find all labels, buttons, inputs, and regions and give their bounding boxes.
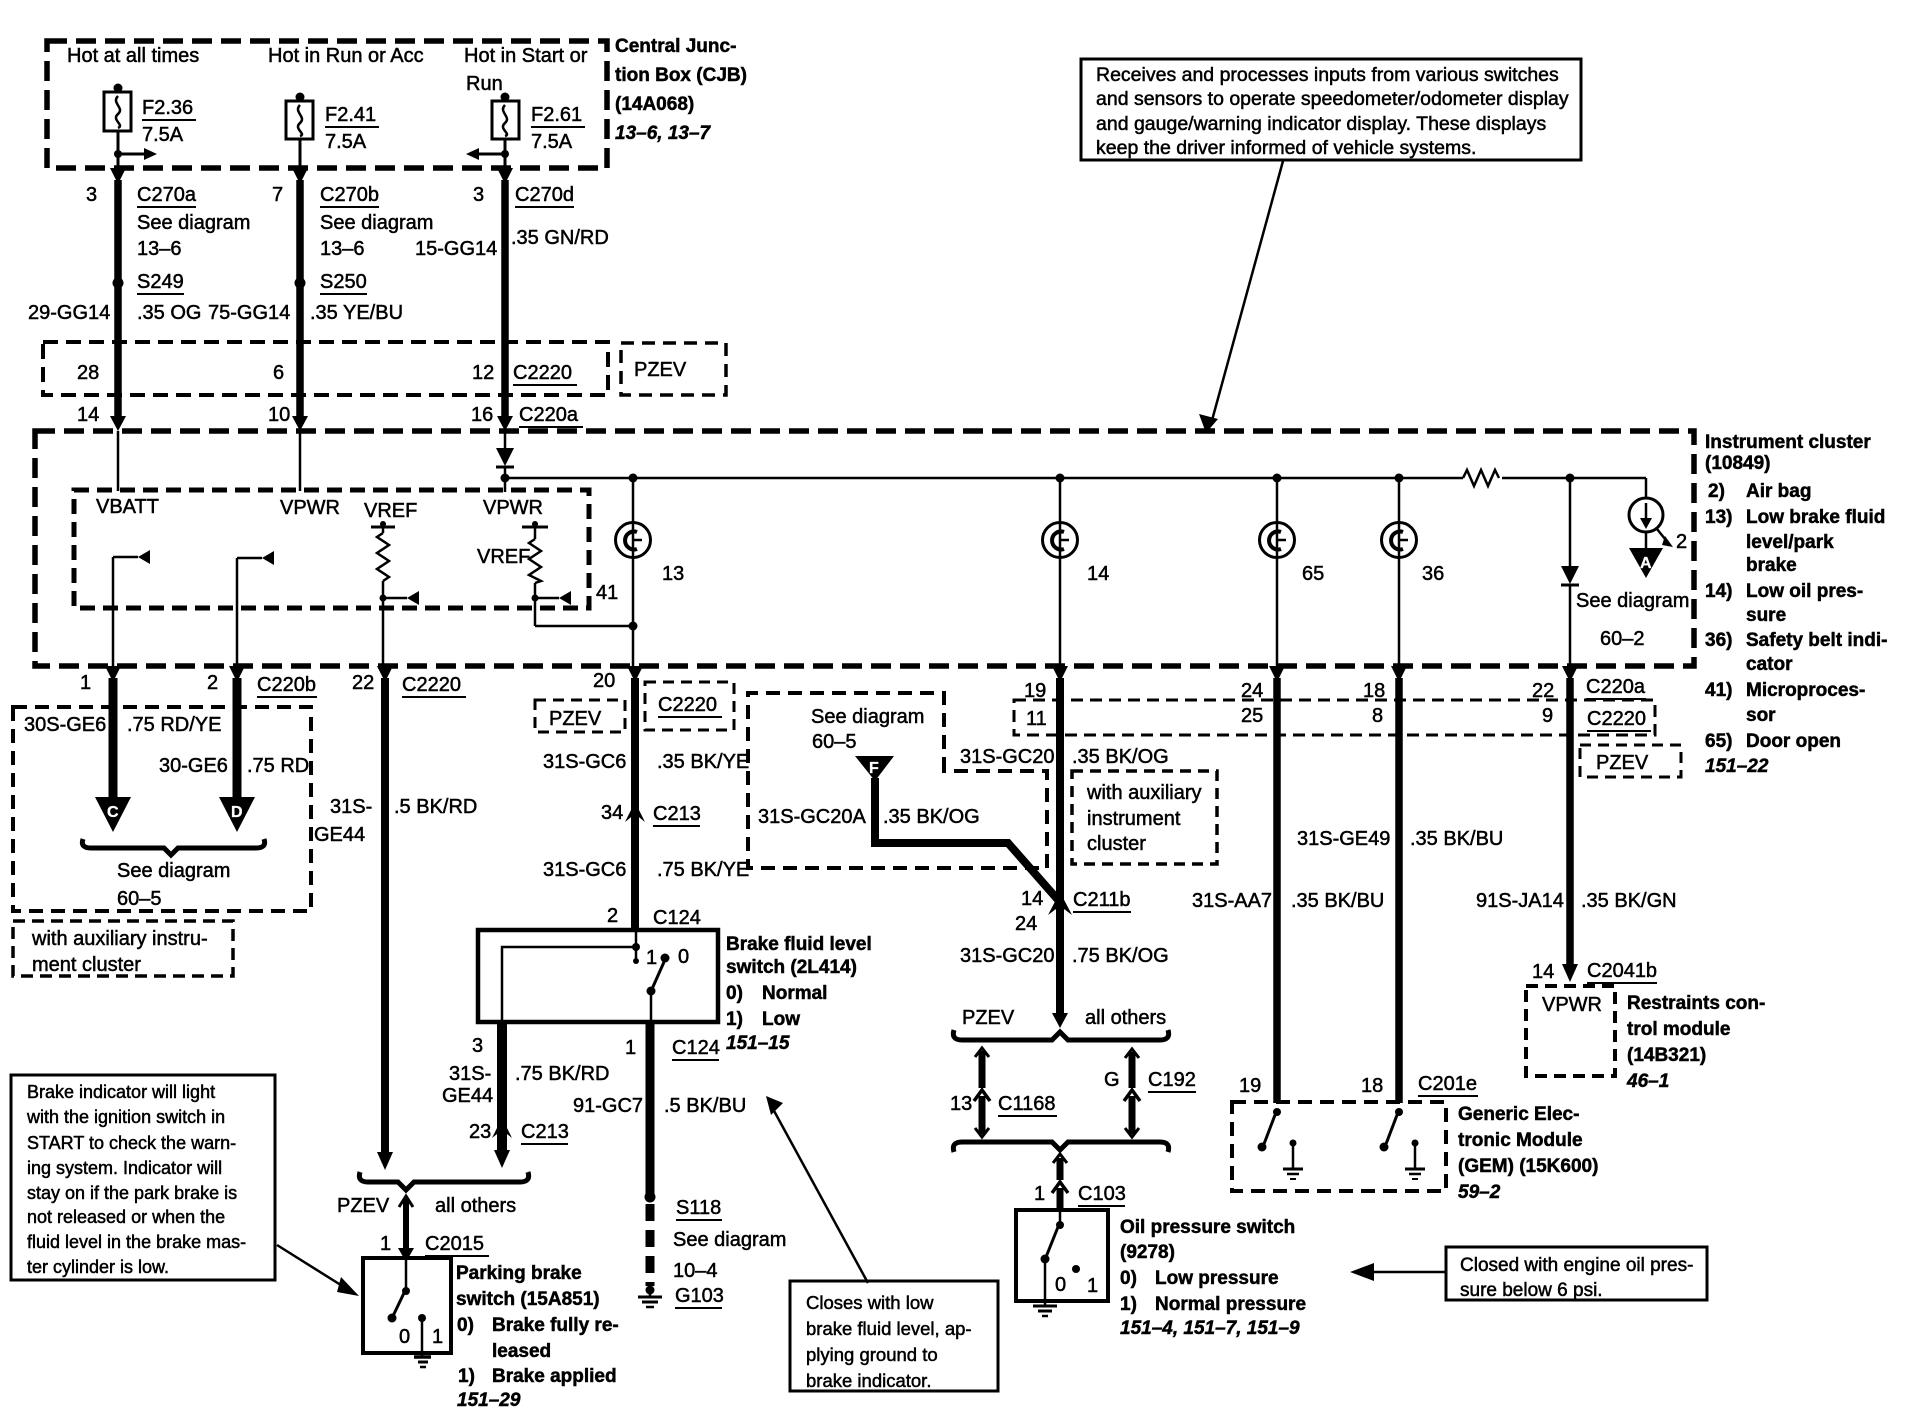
svg-text:all others: all others bbox=[435, 1195, 516, 1217]
connector C2220 label (pin 22) bbox=[402, 674, 466, 697]
svg-text:See diagram: See diagram bbox=[673, 1229, 786, 1251]
svg-text:31S-AA7: 31S-AA7 bbox=[1192, 890, 1272, 912]
svg-text:C211b: C211b bbox=[1073, 889, 1130, 911]
svg-text:See diagram: See diagram bbox=[117, 860, 230, 882]
svg-text:1): 1) bbox=[458, 1366, 475, 1387]
wire 31S-GC20A .35 BK/OG from F bbox=[758, 778, 1059, 901]
svg-text:.35 BK/OG: .35 BK/OG bbox=[1072, 746, 1169, 768]
wire label 31S-GC6 .75 BK/YE bbox=[543, 859, 749, 881]
svg-text:1: 1 bbox=[1087, 1275, 1098, 1297]
svg-text:(14A068): (14A068) bbox=[615, 94, 694, 115]
svg-text:C2041b: C2041b bbox=[1587, 960, 1657, 982]
svg-text:Closed with engine oil pres-: Closed with engine oil pres- bbox=[1460, 1255, 1693, 1276]
svg-text:sor: sor bbox=[1746, 705, 1776, 726]
switch pin 3 wire 31S-GE44 bbox=[442, 1022, 609, 1168]
svg-text:VPWR: VPWR bbox=[1542, 994, 1602, 1016]
svg-text:C220b: C220b bbox=[257, 674, 316, 696]
svg-text:9: 9 bbox=[1542, 705, 1553, 727]
svg-text:VBATT: VBATT bbox=[96, 496, 159, 518]
svg-text:C1168: C1168 bbox=[998, 1093, 1055, 1115]
brace joining 31S-GE44 wires bbox=[359, 1172, 528, 1190]
wire label 31S-GE44 .5 BK/RD bbox=[314, 796, 477, 846]
svg-text:14): 14) bbox=[1705, 581, 1732, 602]
svg-text:tion Box (CJB): tion Box (CJB) bbox=[615, 65, 747, 86]
svg-text:7.5A: 7.5A bbox=[531, 131, 573, 153]
svg-text:C2220: C2220 bbox=[513, 362, 572, 384]
svg-text:0: 0 bbox=[1055, 1274, 1066, 1296]
svg-text:16: 16 bbox=[471, 404, 493, 426]
brake fluid level switch (2L414) bbox=[478, 930, 718, 1022]
svg-text:.35 BK/BU: .35 BK/BU bbox=[1410, 828, 1503, 850]
svg-text:3: 3 bbox=[472, 1035, 483, 1057]
svg-text:cator: cator bbox=[1746, 654, 1793, 675]
svg-text:2: 2 bbox=[607, 905, 618, 927]
svg-text:13–6: 13–6 bbox=[320, 238, 365, 260]
resistor VREF (right) bbox=[477, 521, 638, 631]
connector C124 pin 1 label bbox=[672, 1037, 720, 1060]
connector C220a / C2220 labels (right) bbox=[1586, 676, 1651, 731]
svg-text:Run: Run bbox=[466, 73, 503, 95]
arrow from note box to instrument cluster bbox=[1199, 161, 1283, 433]
parking brake switch labels bbox=[456, 1263, 619, 1408]
svg-text:Low pressure: Low pressure bbox=[1155, 1268, 1279, 1289]
svg-text:leased: leased bbox=[492, 1341, 551, 1362]
svg-text:14: 14 bbox=[1532, 961, 1554, 983]
connector C201e pins 19 and 18 bbox=[1239, 1073, 1478, 1097]
svg-text:instrument: instrument bbox=[1087, 808, 1181, 830]
switch pin 1 wire 91-GC7 bbox=[573, 1022, 746, 1197]
wire label 31S-GE49 .35 BK/BU bbox=[1297, 828, 1503, 850]
svg-text:C2220: C2220 bbox=[1587, 708, 1646, 730]
svg-text:65): 65) bbox=[1705, 731, 1732, 752]
svg-text:31S-GE49: 31S-GE49 bbox=[1297, 828, 1390, 850]
svg-text:14: 14 bbox=[1087, 563, 1109, 585]
svg-text:and sensors to operate speedom: and sensors to operate speedometer/odome… bbox=[1096, 88, 1569, 110]
svg-text:7.5A: 7.5A bbox=[325, 131, 367, 153]
svg-text:brake indicator.: brake indicator. bbox=[806, 1370, 931, 1391]
svg-text:1): 1) bbox=[1120, 1294, 1137, 1315]
restraints control module labels bbox=[1626, 993, 1765, 1092]
wire label 31S-GC20 .35 BK/OG bbox=[960, 746, 1169, 768]
svg-text:Microproces-: Microproces- bbox=[1746, 680, 1865, 701]
microprocessor input arrow pin 1 bbox=[113, 550, 150, 666]
svg-text:0: 0 bbox=[399, 1326, 410, 1348]
connector C124 pin 2 bbox=[607, 905, 701, 930]
svg-text:1: 1 bbox=[432, 1326, 443, 1348]
ground below oil pressure switch bbox=[1033, 1301, 1057, 1316]
svg-text:ment cluster: ment cluster bbox=[32, 954, 141, 976]
svg-text:all others: all others bbox=[1085, 1007, 1166, 1029]
wire label 30-GE6 .75 RD bbox=[159, 755, 309, 777]
svg-text:C2220: C2220 bbox=[402, 674, 461, 696]
svg-text:PZEV: PZEV bbox=[634, 359, 687, 381]
svg-text:sure: sure bbox=[1746, 605, 1786, 626]
svg-text:151–4, 151–7, 151–9: 151–4, 151–7, 151–9 bbox=[1120, 1318, 1300, 1339]
svg-text:fluid level in the brake mas-: fluid level in the brake mas- bbox=[27, 1232, 246, 1252]
svg-text:Closes with low: Closes with low bbox=[806, 1292, 934, 1313]
svg-text:GE44: GE44 bbox=[314, 824, 365, 846]
svg-text:G: G bbox=[1104, 1069, 1120, 1091]
svg-text:65: 65 bbox=[1302, 563, 1324, 585]
svg-text:brake: brake bbox=[1746, 555, 1797, 576]
in-line connector C213 pin 34 bbox=[601, 802, 701, 826]
svg-text:28: 28 bbox=[77, 362, 99, 384]
svg-text:PZEV: PZEV bbox=[337, 1195, 390, 1217]
fuse F2.36 7.5A bbox=[104, 84, 196, 147]
svg-text:31S-: 31S- bbox=[330, 796, 372, 818]
svg-text:PZEV: PZEV bbox=[962, 1007, 1015, 1029]
svg-text:14: 14 bbox=[77, 404, 99, 426]
svg-text:Receives and processes inputs: Receives and processes inputs from vario… bbox=[1096, 64, 1559, 86]
svg-text:19: 19 bbox=[1239, 1075, 1261, 1097]
svg-text:Safety belt indi-: Safety belt indi- bbox=[1746, 630, 1887, 651]
note box: brake indicator will light bbox=[11, 1075, 275, 1280]
connector C270d pin 3 bbox=[415, 184, 609, 260]
note box with auxiliary instrument cluster (left) bbox=[13, 921, 233, 976]
svg-text:C: C bbox=[107, 804, 119, 821]
parking brake switch (15A851) bbox=[363, 1258, 451, 1354]
svg-text:Air bag: Air bag bbox=[1746, 481, 1811, 502]
svg-text:31S-GC20: 31S-GC20 bbox=[960, 945, 1055, 967]
note box: receives and processes inputs bbox=[1081, 59, 1581, 160]
pin 18 wire 31S-GE49 bbox=[1363, 666, 1407, 1103]
connector C220a pin row bbox=[77, 404, 583, 427]
svg-text:C124: C124 bbox=[672, 1037, 720, 1059]
svg-text:10–4: 10–4 bbox=[673, 1260, 718, 1282]
oil pressure switch (9278) bbox=[1016, 1210, 1108, 1301]
connector C2015 pin 1 bbox=[380, 1233, 489, 1256]
svg-text:3: 3 bbox=[473, 184, 484, 206]
wire label 31S-GC6 .35 BK/YE bbox=[543, 751, 749, 773]
svg-text:13–6, 13–7: 13–6, 13–7 bbox=[615, 123, 712, 144]
svg-text:Brake applied: Brake applied bbox=[492, 1366, 617, 1387]
svg-text:Hot in Run or Acc: Hot in Run or Acc bbox=[268, 45, 424, 67]
svg-text:.35 OG: .35 OG bbox=[137, 302, 201, 324]
svg-text:2: 2 bbox=[207, 672, 218, 694]
connector C2220 dashed box (pin 20) bbox=[645, 682, 734, 730]
svg-text:Brake indicator will light: Brake indicator will light bbox=[27, 1082, 215, 1102]
svg-text:(9278): (9278) bbox=[1120, 1242, 1175, 1263]
svg-text:ing system. Indicator will: ing system. Indicator will bbox=[27, 1158, 222, 1178]
ground terminal inside GEM (left) bbox=[1283, 1140, 1303, 1180]
ground below parking brake switch bbox=[414, 1353, 431, 1367]
wire 29-GG14 .35 OG label bbox=[28, 302, 201, 324]
svg-text:Instrument cluster: Instrument cluster bbox=[1705, 432, 1871, 453]
svg-text:S118: S118 bbox=[676, 1197, 721, 1219]
svg-text:C270b: C270b bbox=[320, 184, 379, 206]
svg-text:Hot in Start or: Hot in Start or bbox=[464, 45, 588, 67]
svg-text:.35 BK/OG: .35 BK/OG bbox=[883, 806, 980, 828]
wire label 91S-JA14 .35 BK/GN bbox=[1476, 890, 1677, 912]
microprocessor input arrow pin 2 bbox=[237, 551, 274, 666]
LED indicator 2 air bag bbox=[1629, 478, 1687, 553]
brace top (oil pressure options) bbox=[953, 1030, 1168, 1040]
ground G103 bbox=[638, 1285, 724, 1308]
diode D1 on VPWR feed bbox=[496, 431, 514, 492]
svg-text:C2015: C2015 bbox=[425, 1233, 484, 1255]
instrument cluster legend bbox=[1705, 432, 1887, 777]
svg-text:14: 14 bbox=[1021, 888, 1043, 910]
diode D2 with See diagram 60-2 bbox=[1561, 478, 1689, 666]
svg-text:.35 YE/BU: .35 YE/BU bbox=[310, 302, 403, 324]
destination arrow C bbox=[95, 797, 131, 832]
wire indicator bus bbox=[501, 474, 1647, 483]
in-line connector C213 pin 23 bbox=[469, 1118, 569, 1144]
svg-text:22: 22 bbox=[1532, 680, 1554, 702]
svg-text:91-GC7: 91-GC7 bbox=[573, 1095, 643, 1117]
PZEV option box (pin 20) bbox=[535, 700, 625, 732]
svg-text:Oil pressure switch: Oil pressure switch bbox=[1120, 1217, 1295, 1238]
wire to ground G103 (broken) bbox=[650, 1204, 786, 1286]
svg-text:switch (2L414): switch (2L414) bbox=[726, 957, 857, 978]
source triangle F bbox=[855, 756, 894, 781]
svg-text:13–6: 13–6 bbox=[137, 238, 182, 260]
svg-text:31S-: 31S- bbox=[449, 1063, 491, 1085]
svg-text:stay on if the park brake is: stay on if the park brake is bbox=[27, 1183, 237, 1203]
svg-text:GE44: GE44 bbox=[442, 1085, 493, 1107]
svg-text:20: 20 bbox=[593, 670, 615, 692]
svg-text:.35 BK/YE: .35 BK/YE bbox=[657, 751, 749, 773]
destination triangle A bbox=[1629, 548, 1663, 578]
svg-text:7: 7 bbox=[272, 184, 283, 206]
connector C2220 band bbox=[43, 342, 608, 395]
destination arrow D bbox=[219, 797, 255, 832]
connector C270a pin 3 bbox=[86, 184, 250, 260]
svg-text:151–22: 151–22 bbox=[1705, 756, 1769, 777]
svg-text:151–15: 151–15 bbox=[726, 1033, 790, 1054]
in-line connector C211b pin 14 bbox=[1015, 888, 1131, 935]
generic electronic module GEM (15K600) dashed box bbox=[1232, 1102, 1446, 1191]
svg-text:36): 36) bbox=[1705, 630, 1732, 651]
svg-text:6: 6 bbox=[273, 362, 284, 384]
svg-text:VPWR: VPWR bbox=[280, 497, 340, 519]
CJB title block bbox=[615, 36, 747, 144]
svg-text:C192: C192 bbox=[1148, 1069, 1196, 1091]
auxiliary cluster connector C2220 band bbox=[1014, 700, 1655, 735]
svg-text:1: 1 bbox=[1034, 1183, 1045, 1205]
svg-text:10: 10 bbox=[268, 404, 290, 426]
svg-text:PZEV: PZEV bbox=[549, 708, 602, 730]
svg-text:(10849): (10849) bbox=[1705, 453, 1771, 474]
svg-text:Low oil pres-: Low oil pres- bbox=[1746, 581, 1863, 602]
lamp 14 low oil pressure bbox=[1043, 478, 1110, 666]
svg-text:VPWR: VPWR bbox=[483, 497, 543, 519]
svg-text:C2220: C2220 bbox=[658, 694, 717, 716]
arrow from note box to parking brake switch bbox=[277, 1245, 359, 1296]
svg-text:(14B321): (14B321) bbox=[1627, 1045, 1706, 1066]
svg-text:23: 23 bbox=[469, 1121, 491, 1143]
pin 1 wire 30S-GE6 bbox=[80, 666, 121, 799]
svg-text:91S-JA14: 91S-JA14 bbox=[1476, 890, 1564, 912]
svg-text:25: 25 bbox=[1241, 705, 1263, 727]
svg-text:Normal pressure: Normal pressure bbox=[1155, 1294, 1306, 1315]
svg-text:.35 BK/GN: .35 BK/GN bbox=[1581, 890, 1677, 912]
svg-text:1): 1) bbox=[726, 1009, 743, 1030]
svg-text:.75 BK/OG: .75 BK/OG bbox=[1072, 945, 1169, 967]
note box: closes with low brake fluid level bbox=[790, 1281, 998, 1391]
lamp 65 door open bbox=[1260, 478, 1325, 666]
GEM switch B bbox=[1380, 1108, 1404, 1152]
svg-text:Parking brake: Parking brake bbox=[456, 1263, 582, 1284]
svg-text:Hot at all times: Hot at all times bbox=[67, 45, 199, 67]
svg-text:2): 2) bbox=[1708, 481, 1725, 502]
fuse F2.61 7.5A bbox=[492, 93, 585, 154]
svg-text:S249: S249 bbox=[137, 271, 184, 293]
brace under arrows C and D bbox=[82, 839, 264, 855]
svg-text:sure below 6 psi.: sure below 6 psi. bbox=[1460, 1280, 1603, 1301]
svg-text:Brake fully re-: Brake fully re- bbox=[492, 1315, 619, 1336]
svg-text:31S-GC6: 31S-GC6 bbox=[543, 859, 626, 881]
svg-text:30S-GE6: 30S-GE6 bbox=[24, 714, 106, 736]
connector C270b pin 7 bbox=[272, 184, 433, 260]
note box with auxiliary instrument cluster (middle) bbox=[1072, 771, 1217, 864]
svg-text:.35 BK/BU: .35 BK/BU bbox=[1291, 890, 1384, 912]
arrow from closed note to oil pressure switch bbox=[1350, 1263, 1446, 1281]
svg-text:with the ignition switch in: with the ignition switch in bbox=[26, 1107, 225, 1127]
option split PZEV / all others (oil pressure) bbox=[962, 1007, 1166, 1029]
svg-text:PZEV: PZEV bbox=[1596, 752, 1649, 774]
svg-text:with auxiliary instru-: with auxiliary instru- bbox=[31, 928, 208, 950]
central junction box CJB (14A068) dashed enclosure bbox=[47, 41, 607, 168]
svg-text:VREF: VREF bbox=[477, 546, 530, 568]
svg-text:C270d: C270d bbox=[515, 184, 574, 206]
svg-text:F2.61: F2.61 bbox=[531, 104, 582, 126]
svg-text:151–29: 151–29 bbox=[457, 1390, 521, 1408]
svg-text:VREF: VREF bbox=[364, 500, 417, 522]
fuse F2.41 7.5A bbox=[286, 93, 379, 154]
svg-text:C213: C213 bbox=[653, 803, 701, 825]
svg-text:31S-GC20: 31S-GC20 bbox=[960, 746, 1055, 768]
svg-text:C201e: C201e bbox=[1418, 1073, 1477, 1095]
in-line connector C1168 pin 13 bbox=[950, 1048, 1057, 1137]
svg-text:Normal: Normal bbox=[762, 983, 827, 1004]
svg-text:18: 18 bbox=[1363, 680, 1385, 702]
svg-text:Low brake fluid: Low brake fluid bbox=[1746, 507, 1885, 528]
svg-text:12: 12 bbox=[472, 362, 494, 384]
svg-text:brake fluid level, ap-: brake fluid level, ap- bbox=[806, 1318, 972, 1339]
splice S250 bbox=[295, 271, 368, 294]
svg-text:75-GG14: 75-GG14 bbox=[208, 302, 290, 324]
pin 19 wire 31S-GC20 bbox=[1024, 666, 1068, 1018]
svg-text:F: F bbox=[869, 760, 879, 777]
pin 24 wire 31S-AA7 bbox=[1241, 666, 1285, 1103]
brace bottom (oil pressure options) bbox=[953, 1142, 1168, 1152]
svg-text:See diagram: See diagram bbox=[137, 212, 250, 234]
svg-text:3: 3 bbox=[86, 184, 97, 206]
svg-text:31S-GC20A: 31S-GC20A bbox=[758, 806, 866, 828]
svg-text:C220a: C220a bbox=[1586, 676, 1646, 698]
dashed option box around wires C and D bbox=[13, 707, 311, 911]
svg-text:level/park: level/park bbox=[1746, 532, 1834, 553]
brake fluid level switch labels bbox=[726, 934, 872, 1054]
svg-text:C213: C213 bbox=[521, 1121, 569, 1143]
svg-text:24: 24 bbox=[1241, 680, 1263, 702]
instrument cluster (10849) dashed enclosure bbox=[35, 431, 1694, 666]
svg-text:11: 11 bbox=[1026, 708, 1047, 730]
note box: closed with engine oil pressure below 6 psi bbox=[1446, 1247, 1707, 1301]
svg-text:with auxiliary: with auxiliary bbox=[1086, 782, 1201, 804]
svg-text:.75 RD/YE: .75 RD/YE bbox=[127, 714, 221, 736]
svg-text:2: 2 bbox=[1676, 531, 1687, 553]
svg-text:60–5: 60–5 bbox=[812, 731, 857, 753]
svg-text:Central Junc-: Central Junc- bbox=[615, 36, 736, 57]
svg-text:Door open: Door open bbox=[1746, 731, 1841, 752]
svg-text:.75 RD: .75 RD bbox=[247, 755, 309, 777]
svg-text:A: A bbox=[1640, 555, 1652, 572]
svg-text:Low: Low bbox=[762, 1009, 800, 1030]
svg-text:41: 41 bbox=[596, 582, 618, 604]
svg-text:30-GE6: 30-GE6 bbox=[159, 755, 228, 777]
svg-text:.5 BK/BU: .5 BK/BU bbox=[664, 1095, 746, 1117]
PZEV option box (right) bbox=[1580, 745, 1681, 777]
svg-text:D: D bbox=[231, 804, 243, 821]
svg-text:1: 1 bbox=[80, 672, 91, 694]
label see diagram 60-5 bbox=[117, 860, 230, 910]
pin 2 wire 30-GE6 bbox=[207, 666, 245, 799]
splice S249 bbox=[113, 271, 185, 294]
svg-text:See diagram: See diagram bbox=[1576, 590, 1689, 612]
svg-text:S250: S250 bbox=[320, 271, 367, 293]
svg-text:C103: C103 bbox=[1078, 1183, 1126, 1205]
svg-text:1: 1 bbox=[646, 947, 657, 969]
svg-text:cluster: cluster bbox=[1087, 833, 1146, 855]
pin 20 wire to brake fluid switch bbox=[593, 666, 643, 930]
wire fuse F2.41 to C270b bbox=[292, 139, 308, 431]
svg-text:Generic Elec-: Generic Elec- bbox=[1458, 1104, 1579, 1125]
svg-text:29-GG14: 29-GG14 bbox=[28, 302, 110, 324]
GEM switch A bbox=[1258, 1108, 1282, 1152]
svg-text:1: 1 bbox=[380, 1233, 391, 1255]
svg-text:F2.36: F2.36 bbox=[142, 97, 193, 119]
wire label 31S-GC20 .75 BK/OG bbox=[960, 945, 1169, 967]
svg-text:15-GG14: 15-GG14 bbox=[415, 238, 497, 260]
svg-text:START to check the warn-: START to check the warn- bbox=[27, 1133, 236, 1153]
svg-text:Brake fluid level: Brake fluid level bbox=[726, 934, 872, 955]
svg-text:See diagram: See diagram bbox=[811, 706, 924, 728]
resistor VREF (left) bbox=[364, 500, 419, 666]
connector C220b label bbox=[257, 674, 317, 697]
svg-text:C220a: C220a bbox=[519, 404, 579, 426]
lamp 13 low brake fluid / park brake bbox=[616, 478, 685, 666]
svg-text:0: 0 bbox=[678, 946, 689, 968]
svg-text:.75 BK/YE: .75 BK/YE bbox=[657, 859, 749, 881]
svg-text:34: 34 bbox=[601, 802, 623, 824]
svg-text:.35 GN/RD: .35 GN/RD bbox=[511, 227, 609, 249]
svg-text:See diagram: See diagram bbox=[320, 212, 433, 234]
svg-text:31S-GC6: 31S-GC6 bbox=[543, 751, 626, 773]
wire label 30S-GE6 .75 RD/YE bbox=[24, 714, 221, 736]
node VPWR (left) bbox=[280, 431, 340, 519]
svg-text:13): 13) bbox=[1705, 507, 1732, 528]
svg-text:0): 0) bbox=[1120, 1268, 1137, 1289]
node VBATT bbox=[96, 431, 159, 518]
wire fuse F2.36 to C270a with side branch arrow bbox=[110, 131, 157, 431]
svg-text:60–2: 60–2 bbox=[1600, 628, 1645, 650]
ground terminal inside GEM (right) bbox=[1405, 1140, 1425, 1180]
svg-text:60–5: 60–5 bbox=[117, 888, 162, 910]
svg-text:(GEM) (15K600): (GEM) (15K600) bbox=[1458, 1156, 1598, 1177]
svg-text:.75 BK/RD: .75 BK/RD bbox=[515, 1063, 609, 1085]
svg-text:1: 1 bbox=[625, 1037, 636, 1059]
svg-text:22: 22 bbox=[352, 672, 374, 694]
svg-text:keep the driver informed of ve: keep the driver informed of vehicle syst… bbox=[1096, 137, 1476, 159]
arrow from closes note to pin 1 wire bbox=[766, 1096, 868, 1283]
lamp 36 safety belt indicator bbox=[1382, 478, 1445, 666]
svg-text:46–1: 46–1 bbox=[1626, 1071, 1669, 1092]
splice S118 bbox=[645, 1192, 723, 1221]
dashed option box see diagram 60-5 (F) bbox=[748, 693, 1047, 868]
svg-text:tronic Module: tronic Module bbox=[1458, 1130, 1583, 1151]
